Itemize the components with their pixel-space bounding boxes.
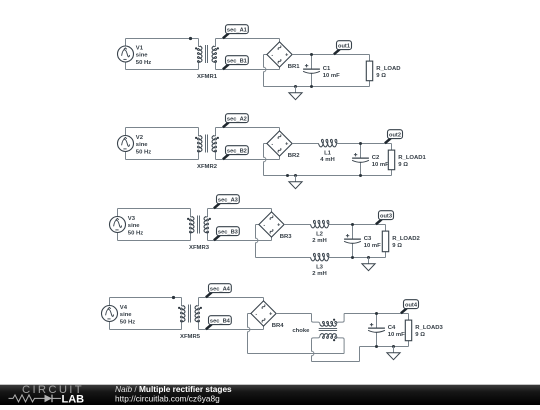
- svg-text:http://circuitlab.com/cz6ya8g: http://circuitlab.com/cz6ya8g: [115, 394, 220, 404]
- svg-text:50 Hz: 50 Hz: [136, 150, 151, 156]
- svg-text:sec_A3: sec_A3: [218, 197, 238, 203]
- svg-text:choke: choke: [292, 328, 310, 334]
- svg-text:50 Hz: 50 Hz: [120, 320, 135, 326]
- svg-text:BR2: BR2: [288, 153, 301, 159]
- svg-text:+: +: [277, 222, 280, 228]
- svg-text:sec_A2: sec_A2: [227, 116, 247, 122]
- svg-text:sine: sine: [136, 142, 149, 148]
- svg-text:+: +: [269, 311, 272, 317]
- svg-text:9 Ω: 9 Ω: [376, 73, 386, 79]
- svg-text:L2: L2: [316, 231, 324, 237]
- svg-text:10 mF: 10 mF: [372, 162, 389, 168]
- svg-text:-: -: [263, 222, 265, 228]
- svg-text:out3: out3: [380, 213, 392, 219]
- svg-text:BR4: BR4: [272, 323, 285, 329]
- svg-text:XFMR3: XFMR3: [189, 245, 210, 251]
- svg-text:+: +: [285, 141, 288, 147]
- svg-text:C1: C1: [323, 66, 331, 72]
- svg-text:sec_B4: sec_B4: [210, 318, 231, 324]
- svg-text:V3: V3: [128, 216, 136, 222]
- svg-text:Naib / Multiple rectifier stag: Naib / Multiple rectifier stages: [115, 384, 232, 394]
- svg-text:L1: L1: [324, 150, 332, 156]
- svg-text:XFMR5: XFMR5: [180, 334, 201, 340]
- svg-text:V1: V1: [136, 46, 144, 52]
- svg-text:R_LOAD3: R_LOAD3: [415, 325, 443, 331]
- svg-text:sine: sine: [128, 223, 141, 229]
- svg-text:50 Hz: 50 Hz: [136, 60, 151, 66]
- svg-text:9 Ω: 9 Ω: [398, 162, 408, 168]
- svg-text:10 mF: 10 mF: [388, 332, 405, 338]
- svg-text:4 mH: 4 mH: [320, 157, 334, 163]
- svg-text:sine: sine: [120, 312, 133, 318]
- svg-text:out4: out4: [405, 302, 418, 308]
- svg-text:-: -: [271, 141, 273, 147]
- svg-text:50 Hz: 50 Hz: [128, 231, 143, 237]
- svg-text:sine: sine: [136, 53, 149, 59]
- svg-text:sec_B1: sec_B1: [227, 58, 247, 64]
- svg-text:-: -: [271, 52, 273, 58]
- svg-text:LAB: LAB: [62, 393, 85, 405]
- svg-text:10 mF: 10 mF: [364, 243, 381, 249]
- svg-text:-: -: [255, 311, 257, 317]
- svg-text:XFMR2: XFMR2: [197, 164, 218, 170]
- svg-text:V4: V4: [120, 305, 128, 311]
- svg-text:XFMR1: XFMR1: [197, 74, 218, 80]
- svg-text:R_LOAD2: R_LOAD2: [392, 236, 420, 242]
- svg-text:BR1: BR1: [288, 64, 301, 70]
- svg-text:C2: C2: [372, 155, 380, 161]
- svg-text:out2: out2: [389, 132, 401, 138]
- svg-text:out1: out1: [338, 43, 350, 49]
- svg-text:9 Ω: 9 Ω: [415, 332, 425, 338]
- svg-text:BR3: BR3: [280, 234, 293, 240]
- svg-text:R_LOAD1: R_LOAD1: [398, 155, 426, 161]
- svg-text:C4: C4: [388, 325, 396, 331]
- svg-text:L3: L3: [316, 264, 324, 270]
- svg-text:10 mF: 10 mF: [323, 73, 340, 79]
- svg-text:2 mH: 2 mH: [312, 238, 326, 244]
- svg-text:C3: C3: [364, 236, 372, 242]
- svg-text:9 Ω: 9 Ω: [392, 243, 402, 249]
- svg-text:sec_B2: sec_B2: [227, 148, 247, 154]
- svg-text:sec_B3: sec_B3: [218, 229, 238, 235]
- svg-text:sec_A1: sec_A1: [227, 27, 247, 33]
- svg-text:V2: V2: [136, 135, 144, 141]
- svg-text:2 mH: 2 mH: [312, 271, 326, 277]
- svg-text:+: +: [285, 52, 288, 58]
- svg-text:R_LOAD: R_LOAD: [376, 66, 400, 72]
- svg-text:sec_A4: sec_A4: [210, 286, 231, 292]
